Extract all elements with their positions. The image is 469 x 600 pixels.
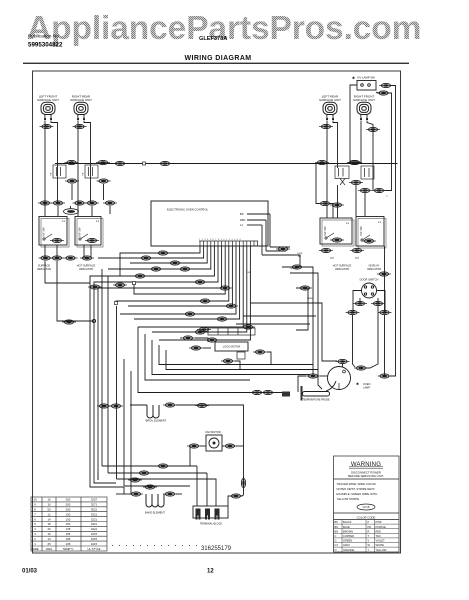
connector (378, 310, 392, 314)
svg-text:3321: 3321 (91, 512, 98, 516)
svg-text:DISPLAY: DISPLAY (369, 264, 380, 268)
connector below right of G2 (97, 179, 111, 183)
svg-text:HOT SURFACE: HOT SURFACE (333, 264, 352, 268)
svg-text:INF SW: INF SW (78, 227, 82, 237)
EOC terminal strip (199, 241, 258, 246)
connector below between G3 G4 (349, 180, 363, 184)
connector (113, 283, 127, 287)
svg-text:1015: 1015 (91, 537, 98, 541)
svg-text:BK: BK (335, 520, 339, 524)
svg-text:OR: OR (247, 272, 251, 274)
svg-text:6: 6 (34, 517, 36, 521)
connector right of RF (366, 127, 380, 131)
connector (229, 494, 243, 498)
bus connector 2 (158, 161, 172, 165)
svg-text:Y/R: Y/R (51, 172, 53, 176)
wires coils LR down (327, 121, 338, 219)
connector (218, 286, 232, 290)
svg-text:G/Y-B: G/Y-B (363, 505, 370, 509)
svg-text:SURFACE: SURFACE (38, 264, 51, 268)
connector (221, 359, 235, 363)
connector below LR (319, 124, 333, 128)
bus connector 4 (347, 160, 361, 164)
svg-text:GRAY: GRAY (343, 543, 350, 547)
connector (330, 203, 344, 207)
svg-text:LOCK MOTOR: LOCK MOTOR (223, 345, 241, 349)
svg-text:200: 200 (66, 508, 71, 512)
svg-text:105: 105 (66, 542, 71, 546)
svg-text:14: 14 (47, 537, 51, 541)
connector (156, 464, 170, 468)
connector right of lamp (378, 374, 392, 378)
svg-text:FAN MOTOR: FAN MOTOR (205, 430, 220, 434)
svg-text:L1: L1 (62, 219, 65, 223)
svg-text:DOOR SWITCH: DOOR SWITCH (360, 278, 379, 282)
wire connector to B3 top (330, 204, 333, 219)
svg-text:PINK: PINK (376, 520, 382, 524)
svg-text:Y: Y (368, 548, 370, 552)
svg-text:Y/R: Y/R (83, 172, 85, 176)
connector (133, 274, 147, 278)
hot surface indicator label left (77, 264, 96, 272)
svg-text:200: 200 (66, 503, 71, 507)
title underline (23, 63, 409, 64)
svg-text:T: T (368, 534, 370, 538)
connector row above left switches (38, 201, 52, 205)
surface unit RR coil (74, 102, 88, 120)
node square (133, 282, 136, 285)
connector (215, 317, 229, 321)
connector left bundle low 2 (109, 404, 123, 408)
svg-text:OVEN: OVEN (363, 382, 370, 386)
connector (80, 256, 94, 260)
infinite switch B2 (75, 217, 103, 248)
svg-text:WIRE: WIRE (31, 547, 38, 551)
svg-text:INDICATOR: INDICATOR (79, 267, 93, 271)
svg-text:OV LAMP SW: OV LAMP SW (357, 76, 375, 80)
svg-text:V: V (368, 539, 370, 543)
svg-text:1015: 1015 (91, 542, 98, 546)
wires right stacks to switches (338, 185, 366, 218)
connector (178, 267, 192, 271)
connector plug G3 (335, 166, 349, 185)
svg-text:HOT SURFACE: HOT SURFACE (77, 264, 96, 268)
svg-text:R: R (368, 529, 370, 533)
connector below (65, 179, 79, 183)
infinite switch B3 (320, 218, 354, 246)
svg-text:TERMINAL BLOCK: TERMINAL BLOCK (200, 522, 223, 526)
fan motor (205, 430, 222, 451)
connector (183, 312, 197, 316)
connector right top of lamp (354, 366, 368, 370)
svg-text:3321: 3321 (91, 522, 98, 526)
svg-text:O: O (335, 548, 337, 552)
door switch (360, 278, 379, 299)
connector (224, 304, 238, 308)
door switch wires (353, 291, 386, 377)
svg-text:GREEN: GREEN (343, 539, 352, 543)
connector (88, 285, 102, 289)
svg-text:Publication No: Publication No (28, 34, 59, 40)
svg-text:BK: BK (240, 212, 244, 216)
connector (290, 265, 304, 269)
svg-text:BAKE ELEMENT: BAKE ELEMENT (145, 511, 165, 515)
warning paragraph (337, 482, 378, 501)
svg-text:200: 200 (66, 498, 71, 502)
svg-text:SURFACE UNIT: SURFACE UNIT (70, 98, 92, 102)
svg-text:BLUE: BLUE (343, 525, 350, 529)
svg-text:BLACK: BLACK (343, 520, 352, 524)
electronic oven control box (151, 201, 268, 246)
connector below G4 right (372, 188, 386, 192)
svg-text:01/03: 01/03 (22, 569, 38, 575)
svg-text:3257: 3257 (91, 498, 98, 502)
svg-text:50: 50 (47, 508, 51, 512)
connector (139, 256, 153, 260)
connectors above right switches (318, 201, 332, 205)
svg-text:7: 7 (34, 512, 36, 516)
svg-text:C: C (335, 534, 337, 538)
connector plug G2 (83, 165, 99, 178)
svg-text:BROIL ELEMENT: BROIL ELEMENT (146, 419, 167, 423)
svg-text:ORANGE: ORANGE (343, 548, 355, 552)
EOC right stub DBL (247, 219, 266, 221)
svg-text:INF SW: INF SW (42, 227, 46, 237)
right mid vertical wires (236, 247, 337, 376)
connector (85, 201, 99, 205)
bus connector 1 (113, 161, 127, 165)
connector row below left switches (45, 245, 91, 258)
connector below LF (40, 124, 54, 128)
connector on lock plate line (197, 327, 211, 331)
svg-text:BU: BU (335, 525, 339, 529)
svg-text:BEFORE SERVICING UNIT.: BEFORE SERVICING UNIT. (348, 474, 384, 478)
connector right of oven lamp switch (379, 83, 393, 87)
svg-text:G/Y BK: G/Y BK (290, 268, 298, 270)
svg-text:BK: BK (298, 256, 301, 258)
svg-text:GY/R: GY/R (297, 253, 303, 255)
svg-text:316255179: 316255179 (201, 546, 232, 552)
svg-text:SURFACE UNIT: SURFACE UNIT (37, 98, 59, 102)
surface indicator label (37, 264, 51, 272)
svg-text:14: 14 (47, 517, 51, 521)
main bus wire L1 (55, 163, 398, 165)
svg-text:PR: PR (368, 525, 372, 529)
connector oval between G3 G4 (348, 160, 362, 164)
connector (346, 310, 360, 314)
fan connector left (187, 444, 201, 448)
svg-text:COLOR CODE: COLOR CODE (357, 515, 376, 519)
lamp wires (298, 364, 343, 392)
wire gauge table text (31, 498, 100, 551)
connector plug G1 (51, 165, 67, 178)
svg-text:BN: BN (335, 529, 339, 533)
connector (371, 301, 385, 305)
plug oval between switches (64, 209, 79, 215)
svg-text:AWG: AWG (46, 547, 53, 551)
connector (276, 247, 290, 251)
probe connector 2 (261, 390, 275, 394)
svg-text:YELLOW STRIPE.: YELLOW STRIPE. (337, 497, 361, 501)
warning box (334, 456, 400, 552)
svg-text:20: 20 (47, 527, 51, 531)
broil element (146, 405, 167, 423)
svg-text:G/Y: G/Y (355, 257, 360, 260)
surface unit LR coil (323, 102, 337, 120)
connector (350, 248, 364, 252)
svg-text:TAN: TAN (376, 534, 381, 538)
svg-text:12: 12 (207, 569, 214, 575)
connector oval right of G2 (96, 160, 110, 164)
svg-text:INDICATOR: INDICATOR (37, 267, 51, 271)
connector (128, 478, 142, 482)
warning title (348, 462, 384, 478)
svg-text:3021: 3021 (91, 508, 98, 512)
svg-text:V: V (386, 196, 388, 198)
bake wires (116, 487, 182, 494)
connector (181, 336, 195, 340)
svg-text:135: 135 (66, 527, 71, 531)
svg-text:NOTED FIRST, STRIPE NEXT.: NOTED FIRST, STRIPE NEXT. (337, 487, 376, 491)
connector (143, 485, 157, 489)
fan connector right (223, 444, 237, 448)
connector (51, 201, 65, 205)
wires coils RR down (78, 121, 91, 217)
svg-text:8: 8 (34, 508, 36, 512)
svg-text:TRACER WIRE: WIRE COLOR: TRACER WIRE: WIRE COLOR (337, 482, 376, 486)
svg-text:18: 18 (47, 522, 51, 526)
svg-text:INDICATOR: INDICATOR (367, 267, 381, 271)
svg-text:16: 16 (47, 503, 51, 507)
svg-text:150: 150 (66, 512, 71, 516)
connector (241, 325, 255, 329)
svg-text:16: 16 (47, 498, 51, 502)
connector below right of oven lamp switch (377, 91, 391, 95)
connector (73, 201, 87, 205)
svg-text:12: 12 (47, 512, 51, 516)
svg-text:COPPER: COPPER (343, 534, 354, 538)
mid horizontal runs (138, 327, 322, 393)
bake element (145, 494, 165, 515)
infinite switch B1 (39, 217, 69, 248)
wire bus to right switch connectors (316, 164, 320, 204)
svg-text:EXAMPLE: GREEN WIRE WITH: EXAMPLE: GREEN WIRE WITH (337, 492, 378, 496)
bus junction node (143, 162, 146, 165)
svg-text:P: P (368, 520, 370, 524)
wire lamp switch left leg (350, 85, 357, 164)
svg-text:10: 10 (33, 498, 37, 502)
surface unit LF coil (41, 102, 55, 120)
connector (137, 471, 151, 475)
surface unit RR label (70, 95, 92, 103)
hot surface indicator label right (333, 264, 352, 272)
connector B4 lower right (377, 272, 391, 276)
warning example oval (357, 504, 375, 510)
center wire fanout (90, 246, 250, 480)
svg-text:9: 9 (34, 503, 36, 507)
svg-text:DBL: DBL (240, 218, 246, 222)
broil connector (163, 403, 177, 407)
svg-text:RED: RED (376, 529, 382, 533)
surface unit RF label (353, 95, 375, 103)
connector (198, 299, 212, 303)
svg-text:SURFACE UNIT: SURFACE UNIT (353, 98, 375, 102)
svg-text:105: 105 (66, 532, 71, 536)
svg-text:L1: L1 (240, 223, 244, 227)
connector (64, 256, 78, 260)
svg-text:5: 5 (34, 522, 36, 526)
EOC right stub BK (247, 213, 270, 215)
connector (39, 256, 53, 260)
EOC stub verticals (262, 214, 270, 255)
svg-text:VIOLET: VIOLET (376, 539, 386, 543)
svg-text:TEMPERATURE PROBE: TEMPERATURE PROBE (303, 399, 330, 402)
bake connector left (129, 492, 143, 496)
terminal block (193, 506, 228, 526)
broil wires (130, 405, 244, 496)
svg-text:GLEF378A: GLEF378A (199, 36, 227, 42)
svg-text:3421: 3421 (91, 527, 98, 531)
oven lamp circle (328, 367, 371, 390)
svg-text:LAMP: LAMP (363, 386, 370, 390)
connector (253, 350, 267, 354)
wire gauge table (31, 497, 107, 551)
fan wires (189, 446, 244, 466)
svg-text:2: 2 (34, 537, 36, 541)
publication number block (28, 34, 63, 49)
wires stacks to connector row (72, 184, 104, 200)
connector (193, 280, 207, 284)
bus connector 3 (315, 160, 329, 164)
connector plug G4 (361, 166, 374, 179)
connector pair below G4 (358, 188, 372, 192)
svg-text:16: 16 (47, 532, 51, 536)
svg-text:150: 150 (66, 517, 71, 521)
connector left bundle low (97, 404, 111, 408)
connector vertical on broil drop (241, 476, 245, 490)
lower horizontal runs (102, 269, 236, 506)
svg-text:4: 4 (34, 527, 36, 531)
svg-text:ELECTRONIC OVEN CONTROL: ELECTRONIC OVEN CONTROL (167, 208, 209, 212)
svg-text:INF SW: INF SW (359, 226, 363, 236)
border frame (33, 71, 401, 553)
connector (298, 286, 312, 290)
connector oval pair between G1 G2 (65, 160, 79, 164)
svg-text:UL STYLE: UL STYLE (87, 547, 100, 551)
oven lamp switch (352, 76, 376, 91)
svg-text:YELLOW: YELLOW (376, 548, 387, 552)
svg-text:WIRING DIAGRAM: WIRING DIAGRAM (184, 55, 251, 62)
svg-text:L1: L1 (346, 221, 349, 225)
svg-text:GY: GY (335, 543, 339, 547)
probe connector (250, 390, 264, 394)
connector on broil line (195, 403, 209, 407)
temperature probe (282, 386, 330, 402)
lock wires (180, 338, 271, 370)
svg-text:150: 150 (66, 522, 71, 526)
svg-text:1: 1 (34, 542, 36, 546)
surface unit LF label (37, 95, 59, 103)
svg-text:✱: ✱ (352, 76, 355, 80)
svg-text:L1: L1 (378, 220, 381, 224)
connector left mid (62, 320, 76, 324)
svg-text:L1: L1 (96, 219, 99, 223)
svg-text:SURFACE UNIT: SURFACE UNIT (319, 98, 341, 102)
bake connector right (163, 492, 177, 496)
wires coils LF down (45, 121, 58, 217)
lock assembly plate (208, 328, 255, 335)
connector (205, 338, 219, 342)
EOC right stub L1 (247, 224, 262, 226)
wire B4 to door switch (384, 246, 386, 312)
svg-text:3: 3 (34, 532, 36, 536)
connector (103, 201, 117, 205)
color code table (334, 515, 400, 552)
connector (156, 251, 170, 255)
connector top of lamp (336, 359, 350, 363)
svg-text:✱: ✱ (356, 382, 359, 386)
lock motor (215, 342, 248, 359)
svg-text:25: 25 (47, 542, 51, 546)
surface unit LR label (319, 95, 341, 103)
svg-text:G/Y: G/Y (330, 257, 335, 260)
svg-text:BROWN: BROWN (343, 529, 353, 533)
connector below RR (73, 124, 87, 128)
connector (149, 267, 163, 271)
wire lamp switch branch (376, 92, 392, 191)
connector (168, 261, 182, 265)
svg-text:105: 105 (66, 537, 71, 541)
oven indicator label right (367, 264, 381, 272)
connector (193, 330, 207, 334)
node square (115, 302, 118, 305)
wires coils RF down (361, 121, 373, 191)
svg-text:3221: 3221 (91, 517, 98, 521)
dotted leader line (112, 545, 198, 547)
svg-text:PURPLE: PURPLE (376, 525, 387, 529)
connector (353, 301, 367, 305)
svg-text:TEMP°C: TEMP°C (63, 547, 74, 551)
connector (189, 346, 203, 350)
connector (50, 256, 64, 260)
svg-text:WHITE: WHITE (376, 543, 385, 547)
surface unit RF coil (357, 102, 371, 120)
svg-text:W/BK: W/BK (307, 298, 313, 300)
svg-text:G: G (335, 539, 337, 543)
stub wires into switch tops (58, 206, 110, 216)
svg-text:W: W (368, 543, 371, 547)
connectors below right switches (319, 248, 333, 252)
svg-text:INF SW: INF SW (323, 226, 327, 236)
left lower wire bundle (45, 261, 124, 487)
infinite switch B4 (356, 217, 386, 249)
svg-text:INDICATOR: INDICATOR (335, 267, 349, 271)
svg-text:1015: 1015 (91, 532, 98, 536)
svg-text:3271: 3271 (91, 503, 98, 507)
wire from lamp switch to right vertical (390, 86, 396, 377)
svg-text:5995304822: 5995304822 (28, 42, 63, 49)
svg-text:1234567890123456: 1234567890123456 (199, 239, 242, 241)
connector left of lamp (306, 374, 320, 378)
